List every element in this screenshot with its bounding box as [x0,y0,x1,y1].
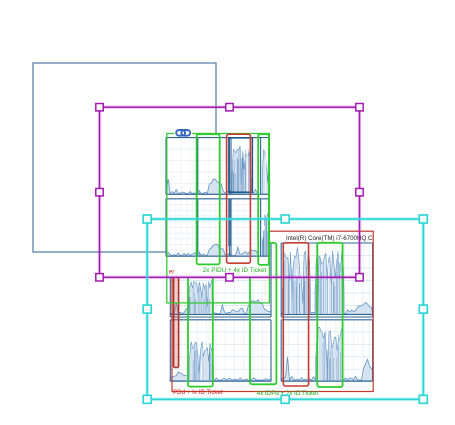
svg-text:er: er [169,268,175,275]
svg-text:2x PIDU + 4x ID Ticket: 2x PIDU + 4x ID Ticket [203,267,267,274]
svg-text:PDd + Ix ID Ticket: PDd + Ix ID Ticket [173,389,223,396]
